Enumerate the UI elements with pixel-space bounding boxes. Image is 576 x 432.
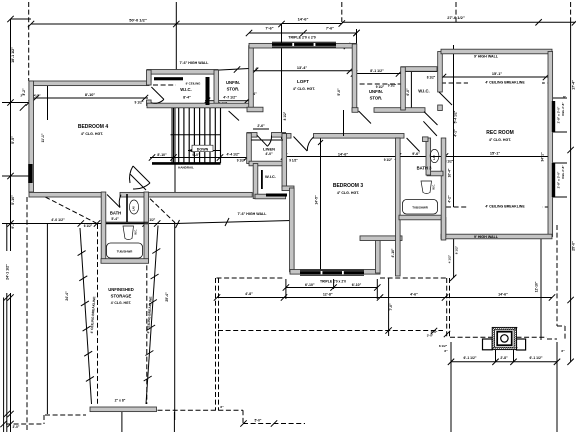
svg-text:24'-4": 24'-4" [65, 291, 69, 301]
svg-text:5'-4": 5'-4" [111, 217, 119, 221]
svg-text:25'-0": 25'-0" [571, 241, 575, 251]
svg-text:8'-4": 8'-4" [183, 96, 191, 100]
svg-text:9 1/2": 9 1/2" [237, 159, 246, 163]
svg-text:4'-2": 4'-2" [448, 195, 452, 203]
svg-text:12'-8": 12'-8" [323, 292, 333, 296]
svg-text:BATH 3: BATH 3 [417, 166, 432, 171]
svg-text:UNFIN.: UNFIN. [226, 80, 240, 85]
svg-text:LOFT: LOFT [297, 79, 309, 84]
svg-text:6'-10": 6'-10" [305, 283, 315, 287]
svg-text:8 1/2": 8 1/2" [283, 111, 287, 120]
svg-text:DBL 2'-8": DBL 2'-8" [561, 165, 565, 179]
svg-text:4 1/2": 4 1/2" [448, 254, 452, 263]
svg-text:15'-1": 15'-1" [490, 152, 501, 156]
svg-text:5'-4 1/2": 5'-4 1/2" [454, 110, 458, 123]
svg-text:4": 4" [253, 92, 257, 96]
svg-text:2" x 8": 2" x 8" [115, 399, 126, 403]
svg-text:14'-5": 14'-5" [315, 195, 319, 205]
svg-text:5'-10": 5'-10" [11, 195, 15, 205]
svg-text:4'-10": 4'-10" [391, 248, 395, 257]
svg-text:W.C.: W.C. [135, 229, 138, 235]
svg-text:7'-6" HIGH WALL: 7'-6" HIGH WALL [238, 212, 268, 216]
svg-text:UNFINISHED: UNFINISHED [108, 287, 134, 292]
svg-text:9' HIGH WALL: 9' HIGH WALL [474, 55, 499, 59]
svg-text:BEDROOM 4: BEDROOM 4 [78, 124, 109, 130]
svg-text:BATH: BATH [110, 211, 121, 216]
svg-text:TRIPLE 2'0 x 2'0: TRIPLE 2'0 x 2'0 [288, 36, 315, 40]
svg-text:9' HIGH WALL: 9' HIGH WALL [474, 235, 499, 239]
svg-text:13'-4": 13'-4" [297, 66, 308, 70]
svg-text:W.I.C.: W.I.C. [180, 87, 191, 92]
svg-text:3'-0": 3'-0" [427, 334, 434, 338]
svg-text:4'-0 1/2": 4'-0 1/2" [51, 218, 65, 222]
svg-text:9 1/2": 9 1/2" [384, 158, 393, 162]
svg-text:4'-7 1/2": 4'-7 1/2" [223, 95, 237, 99]
svg-text:7'-6" HIGH WALL: 7'-6" HIGH WALL [180, 61, 210, 65]
svg-text:4'-0": 4'-0" [265, 152, 273, 156]
svg-text:15'-1": 15'-1" [492, 72, 503, 76]
svg-text:34'-1": 34'-1" [541, 152, 545, 162]
svg-text:7'-6": 7'-6" [265, 27, 273, 31]
svg-text:8": 8" [561, 349, 565, 353]
svg-text:LINEN: LINEN [263, 147, 275, 152]
svg-text:9'-1": 9'-1" [11, 221, 15, 229]
svg-text:REC ROOM: REC ROOM [486, 130, 514, 136]
svg-text:11'-1": 11'-1" [41, 133, 45, 142]
svg-text:8": 8" [220, 405, 224, 409]
svg-text:HANDRAIL: HANDRAIL [178, 166, 194, 170]
svg-text:W.I.C.: W.I.C. [418, 89, 429, 94]
svg-text:4'-6": 4'-6" [410, 293, 418, 297]
svg-text:6'-10": 6'-10" [352, 283, 362, 287]
svg-text:9 1/2": 9 1/2" [289, 159, 298, 163]
svg-text:4'-1": 4'-1" [454, 129, 458, 137]
svg-text:DOWN: DOWN [197, 147, 209, 151]
svg-text:9'-0": 9'-0" [192, 153, 200, 157]
svg-text:24'-1 1/2": 24'-1 1/2" [6, 264, 10, 280]
svg-text:4° CLG. HGT.: 4° CLG. HGT. [337, 191, 359, 195]
svg-text:9 1/2": 9 1/2" [135, 101, 144, 105]
svg-text:W.C.: W.C. [433, 184, 436, 190]
svg-text:2'-8": 2'-8" [500, 356, 508, 360]
svg-text:12'-10": 12'-10" [535, 281, 539, 292]
svg-text:8": 8" [444, 349, 448, 353]
svg-text:TRIPLE 2'0 x 2'0: TRIPLE 2'0 x 2'0 [320, 279, 346, 283]
svg-text:5'-0": 5'-0" [337, 88, 341, 96]
svg-text:6 1/2": 6 1/2" [84, 224, 93, 228]
svg-text:3'-0": 3'-0" [13, 425, 20, 429]
svg-text:STOR.: STOR. [227, 87, 240, 92]
svg-text:9'-6": 9'-6" [412, 152, 420, 156]
svg-text:4' CEILING BREAKLINE: 4' CEILING BREAKLINE [485, 81, 525, 85]
svg-text:LAV: LAV [432, 155, 436, 160]
svg-text:8 1/2": 8 1/2" [455, 245, 459, 254]
svg-text:14'-6": 14'-6" [498, 293, 508, 297]
svg-text:4' CEILING BREAKLINE: 4' CEILING BREAKLINE [485, 205, 525, 209]
svg-text:14'-6": 14'-6" [298, 17, 309, 22]
svg-text:UNFIN.: UNFIN. [369, 89, 383, 94]
svg-text:25'-4": 25'-4" [165, 292, 169, 302]
svg-text:LAV: LAV [132, 206, 136, 211]
svg-text:7'-6": 7'-6" [326, 27, 334, 31]
svg-text:5'-5": 5'-5" [11, 136, 15, 144]
svg-text:DBL 2'-8": DBL 2'-8" [561, 102, 565, 116]
svg-text:6'-1 1/2": 6'-1 1/2" [464, 356, 477, 360]
svg-text:8'-10": 8'-10" [157, 153, 167, 157]
svg-text:8 1/2": 8 1/2" [427, 76, 436, 80]
svg-text:17'-4": 17'-4" [571, 80, 575, 90]
svg-text:W.I.C.: W.I.C. [265, 174, 276, 179]
svg-text:50'-0 1/2": 50'-0 1/2" [129, 18, 147, 23]
svg-text:BEDROOM 3: BEDROOM 3 [333, 183, 364, 189]
svg-text:8'-1 1/2": 8'-1 1/2" [370, 69, 384, 73]
svg-text:TUB/SHWR: TUB/SHWR [412, 206, 428, 210]
svg-text:STOR.: STOR. [370, 96, 383, 101]
svg-text:4° CLG. HGT.: 4° CLG. HGT. [81, 132, 103, 136]
svg-text:7'-0": 7'-0" [389, 303, 393, 311]
svg-text:8'-10": 8'-10" [85, 93, 96, 97]
svg-text:8 1/2": 8 1/2" [439, 344, 448, 348]
svg-text:2'-6": 2'-6" [257, 124, 265, 128]
svg-text:STORAGE: STORAGE [111, 294, 132, 299]
svg-text:4° CLG. HGT.: 4° CLG. HGT. [293, 87, 315, 91]
svg-text:9' CEILING: 9' CEILING [186, 82, 202, 86]
svg-text:4'-4 1/2": 4'-4 1/2" [227, 153, 240, 157]
svg-text:TUB/SHWR: TUB/SHWR [117, 250, 133, 254]
svg-text:10'-4": 10'-4" [448, 168, 452, 177]
svg-text:4'-8": 4'-8" [245, 292, 253, 296]
svg-text:4": 4" [255, 67, 259, 71]
svg-text:4' CLG. HGT.: 4' CLG. HGT. [111, 301, 132, 305]
svg-text:18'-1 1/2": 18'-1 1/2" [11, 47, 15, 63]
svg-text:6'-1 1/2": 6'-1 1/2" [530, 356, 543, 360]
svg-text:5'-0": 5'-0" [255, 419, 262, 423]
svg-text:6'-0": 6'-0" [406, 88, 410, 96]
svg-text:4° CLG. HGT.: 4° CLG. HGT. [489, 138, 511, 142]
svg-text:14'-6": 14'-6" [338, 152, 349, 156]
